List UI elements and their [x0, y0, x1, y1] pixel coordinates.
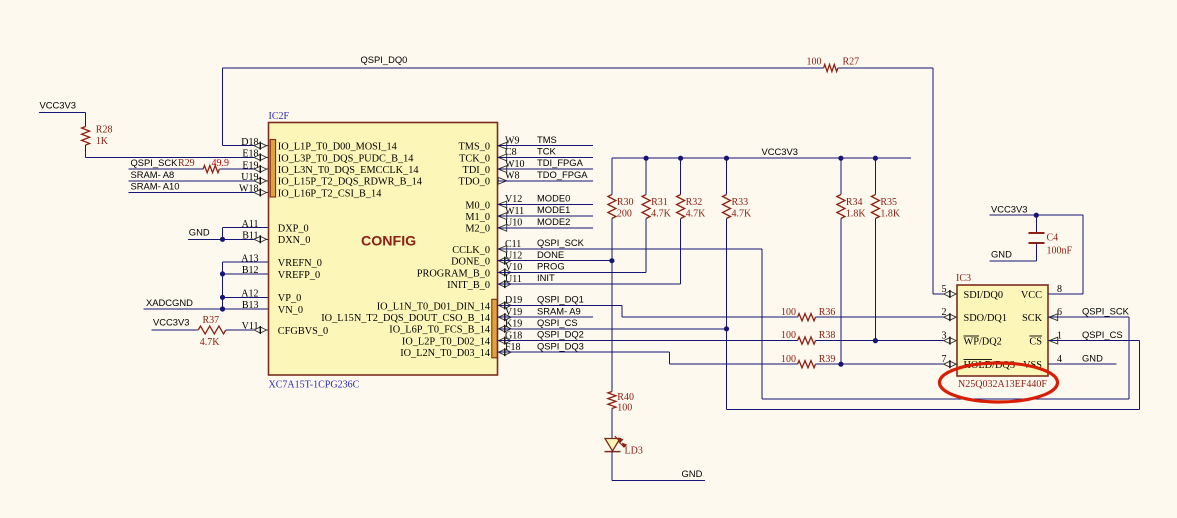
- svg-text:IO_L3N_T0_DQS_EMCCLK_14: IO_L3N_T0_DQS_EMCCLK_14: [278, 165, 419, 176]
- pin name CS right: [1029, 336, 1042, 348]
- svg-text:VREFP_0: VREFP_0: [278, 270, 320, 281]
- svg-text:4.7K: 4.7K: [732, 209, 753, 220]
- svg-text:QSPI_DQ0: QSPI_DQ0: [361, 54, 408, 65]
- wire QSPI_DQ0 horizontal: [223, 67, 824, 69]
- svg-text:N25Q032A13EF440F: N25Q032A13EF440F: [958, 379, 1047, 390]
- svg-text:W11: W11: [505, 206, 524, 217]
- pin name HOLD/DQ3: [964, 360, 1015, 372]
- wire DONE row: [498, 260, 612, 262]
- pin arrow G18: [499, 338, 511, 344]
- wire to pin A11 DXP: [223, 227, 269, 229]
- pin arrow U12: [499, 258, 511, 264]
- wire QSPI_SCK stub left: [129, 168, 204, 170]
- pin name SDO/DQ1: [964, 313, 1007, 324]
- svg-text:R27: R27: [843, 57, 860, 68]
- pin arrow E18: [254, 154, 266, 160]
- svg-text:CCLK_0: CCLK_0: [452, 245, 490, 256]
- resistor R33: [723, 195, 753, 220]
- svg-text:100: 100: [807, 57, 822, 68]
- junction rail/R35: [873, 156, 878, 161]
- wire TCK stub: [498, 156, 594, 158]
- svg-text:XADCGND: XADCGND: [146, 297, 193, 308]
- wire QSPI_DQ1 run to R36: [622, 316, 798, 318]
- svg-text:B13: B13: [242, 300, 259, 311]
- svg-text:IO_L1P_T0_D00_MOSI_14: IO_L1P_T0_D00_MOSI_14: [278, 142, 397, 153]
- wire R33 down to CS bottom wire: [726, 329, 728, 410]
- pin name WP/DQ2: [964, 336, 1002, 348]
- wire C4 bottom leg: [1035, 243, 1037, 261]
- wire QSPI_SCK up to flash pin6: [1128, 317, 1130, 399]
- svg-text:CONFIG: CONFIG: [361, 234, 416, 250]
- svg-text:IO_L15N_T2_DQS_DOUT_CSO_B_14: IO_L15N_T2_DQS_DOUT_CSO_B_14: [321, 313, 490, 324]
- junction VREFP junction: [220, 271, 225, 276]
- svg-text:100: 100: [781, 307, 796, 318]
- pin arrow E19: [254, 166, 266, 172]
- junction R34/DQ3 junction: [838, 362, 843, 367]
- pin arrow U19: [254, 178, 266, 184]
- resistor R39: [781, 354, 835, 368]
- svg-text:SDO/DQ1: SDO/DQ1: [964, 313, 1007, 324]
- wire to pin B12 VREFP: [223, 273, 269, 275]
- svg-text:W8: W8: [505, 171, 519, 182]
- svg-text:4.7K: 4.7K: [200, 337, 221, 348]
- svg-text:VREFN_0: VREFN_0: [278, 258, 322, 269]
- svg-text:V12: V12: [505, 194, 522, 205]
- wire QSPI_DQ1 row: [498, 304, 622, 306]
- svg-text:TCK: TCK: [537, 146, 556, 157]
- wire R39 to flash pin7: [816, 363, 958, 365]
- svg-text:DXP_0: DXP_0: [278, 224, 309, 235]
- junction VN junction: [220, 306, 225, 311]
- svg-text:TDO_0: TDO_0: [459, 177, 490, 188]
- svg-text:IO_L2P_T0_D02_14: IO_L2P_T0_D02_14: [402, 337, 490, 348]
- svg-text:SRAM- A8: SRAM- A8: [131, 169, 175, 180]
- svg-text:W10: W10: [505, 159, 524, 170]
- IC U2F FPGA box IC2F: [269, 111, 498, 391]
- junction rail/R34: [838, 156, 843, 161]
- junction rail/R31: [644, 156, 649, 161]
- svg-text:100nF: 100nF: [1047, 246, 1073, 257]
- wire to pin B13 VN: [223, 308, 269, 310]
- wire QSPI_DQ0 drop to flash pin5: [932, 68, 934, 294]
- svg-text:QSPI_CS: QSPI_CS: [537, 317, 578, 328]
- svg-text:1.8K: 1.8K: [846, 209, 867, 220]
- svg-text:VCC3V3: VCC3V3: [153, 317, 189, 328]
- svg-text:DONE: DONE: [537, 249, 564, 260]
- pin arrow U10: [498, 224, 507, 231]
- resistor R29: [203, 158, 229, 173]
- svg-text:R38: R38: [819, 330, 836, 341]
- svg-text:R40: R40: [617, 392, 634, 403]
- pin group bar right: [492, 299, 497, 358]
- wire VCC3V3 to R37: [152, 329, 199, 331]
- wire QSPI_DQ0 after R27: [838, 67, 933, 69]
- wire R35 down to DQ2 row: [874, 219, 876, 341]
- wire to pin A13 VREFN: [223, 261, 269, 263]
- wire VCC3V3 to R28: [85, 113, 87, 127]
- junction rail/R32: [678, 156, 683, 161]
- wire R29 to pin E19: [219, 168, 268, 170]
- svg-text:SDI/DQ0: SDI/DQ0: [964, 290, 1003, 301]
- pin arrow V10: [499, 269, 511, 275]
- resistor R40: [608, 392, 634, 414]
- svg-text:C4: C4: [1047, 233, 1059, 244]
- svg-text:M2_0: M2_0: [465, 224, 490, 235]
- pin arrow D18: [254, 143, 266, 149]
- pin arrow V19: [499, 314, 511, 320]
- wire R36 to flash pin2: [816, 316, 958, 318]
- resistor R30: [608, 195, 634, 220]
- wire QSPI_DQ0 into pin D18: [223, 145, 269, 147]
- wire GND to DXN: [188, 238, 222, 240]
- wire R38 to flash pin3: [816, 340, 958, 342]
- svg-text:100: 100: [781, 354, 796, 365]
- wire PROG row: [498, 271, 647, 273]
- svg-text:WP/DQ2: WP/DQ2: [964, 337, 1002, 348]
- wire QSPI_DQ0 drop to D18: [222, 68, 224, 146]
- resistor R38: [781, 330, 835, 344]
- svg-text:M0_0: M0_0: [465, 200, 490, 211]
- svg-text:VCC3V3: VCC3V3: [762, 146, 798, 157]
- junction GND/DXN: [220, 237, 225, 242]
- pin arrow flash 7: [944, 361, 956, 367]
- wire flash pin6 wire: [1048, 316, 1129, 318]
- svg-text:A11: A11: [242, 219, 259, 230]
- svg-text:VCC3V3: VCC3V3: [991, 204, 1027, 215]
- wire R37 to pin V11: [226, 329, 269, 331]
- wire VCC3V3 to flash VCC: [990, 214, 1084, 216]
- svg-text:QSPI_SCK: QSPI_SCK: [131, 157, 179, 168]
- wire QSPI_SCK bottom: [762, 398, 1129, 400]
- wire LED to GND wire: [611, 452, 613, 481]
- svg-text:GND: GND: [189, 227, 210, 238]
- wire QSPI_DQ0 into flash pin 5: [933, 293, 957, 295]
- svg-text:PROGRAM_B_0: PROGRAM_B_0: [417, 268, 490, 279]
- pin arrow W11: [498, 213, 507, 220]
- pin name SCK right: [1022, 313, 1043, 324]
- svg-text:8: 8: [1057, 284, 1062, 295]
- wire SRAM-A10 stub: [129, 192, 269, 194]
- svg-text:100: 100: [781, 330, 796, 341]
- wire TDO_FPGA stub: [498, 180, 594, 182]
- pin arrow C11: [498, 246, 507, 253]
- pin arrow W8: [498, 177, 507, 184]
- IC U3 flash box IC3: [956, 273, 1048, 376]
- svg-text:DXN_0: DXN_0: [278, 235, 311, 246]
- pin arrow D19: [499, 302, 511, 308]
- svg-text:4: 4: [1057, 354, 1062, 365]
- svg-text:R37: R37: [203, 315, 220, 326]
- svg-text:1K: 1K: [96, 136, 109, 147]
- svg-text:M1_0: M1_0: [465, 212, 490, 223]
- wire MODE1 stub: [498, 215, 594, 217]
- wire QSPI_CS bottom: [727, 409, 1140, 411]
- junction C4 junction: [1034, 213, 1039, 218]
- svg-text:MODE1: MODE1: [537, 204, 570, 215]
- pin arrow U11: [499, 281, 511, 287]
- junction DONE junction: [609, 258, 614, 263]
- wire TDI_FPGA stub: [498, 168, 594, 170]
- svg-text:4.7K: 4.7K: [686, 209, 707, 220]
- LED LD3: [605, 436, 643, 456]
- svg-text:SRAM- A9: SRAM- A9: [537, 305, 581, 316]
- pin arrow W18: [254, 190, 266, 196]
- svg-text:C11: C11: [505, 239, 521, 250]
- svg-text:49.9: 49.9: [212, 158, 230, 169]
- junction VP junction: [220, 295, 225, 300]
- junction CS/R33 junction: [724, 326, 729, 331]
- wire XADCGND to VN: [144, 308, 223, 310]
- svg-text:QSPI_CS: QSPI_CS: [1082, 329, 1123, 340]
- svg-text:R29: R29: [178, 158, 195, 169]
- wire R28 to pin E18: [86, 156, 269, 158]
- svg-text:VCC: VCC: [1021, 290, 1042, 301]
- wire TMS stub: [498, 145, 594, 147]
- resistor R32: [677, 195, 707, 220]
- pin arrow W10: [498, 166, 507, 173]
- pin name SDI/DQ0: [964, 290, 1003, 301]
- resistor R36: [781, 307, 835, 321]
- svg-text:VCC3V3: VCC3V3: [40, 100, 76, 111]
- svg-text:U10: U10: [505, 218, 522, 229]
- wire R32 top leg: [680, 158, 682, 194]
- svg-text:R31: R31: [651, 197, 668, 208]
- svg-text:A13: A13: [241, 253, 258, 264]
- svg-text:QSPI_SCK: QSPI_SCK: [537, 237, 585, 248]
- svg-text:DONE_0: DONE_0: [451, 257, 490, 268]
- svg-text:IO_L15P_T2_DQS_RDWR_B_14: IO_L15P_T2_DQS_RDWR_B_14: [278, 177, 422, 188]
- pin arrow flash 3: [944, 338, 956, 344]
- wire R28 to E18 row: [85, 145, 87, 157]
- wire R33 top leg: [726, 158, 728, 194]
- svg-text:PROG: PROG: [537, 261, 565, 272]
- svg-text:IO_L6P_T0_FCS_B_14: IO_L6P_T0_FCS_B_14: [389, 325, 490, 336]
- svg-text:GND: GND: [1082, 353, 1103, 364]
- svg-text:4.7K: 4.7K: [651, 209, 672, 220]
- wire R35 top leg: [874, 158, 876, 194]
- wire R30 to DONE: [611, 219, 613, 261]
- pin group bar left: [270, 140, 275, 198]
- wire SRAM-A8 stub: [129, 180, 269, 182]
- svg-text:R33: R33: [732, 197, 749, 208]
- svg-text:B12: B12: [242, 265, 259, 276]
- wire to C4 top: [1035, 215, 1037, 233]
- pin name VCC right: [1021, 290, 1042, 301]
- svg-text:TCK_0: TCK_0: [459, 153, 490, 164]
- svg-text:VN_0: VN_0: [278, 305, 303, 316]
- pin arrow V11: [254, 327, 266, 333]
- highlight ellipse: [940, 363, 1058, 402]
- svg-text:TDI_FPGA: TDI_FPGA: [537, 157, 584, 168]
- svg-text:QSPI_DQ2: QSPI_DQ2: [537, 329, 584, 340]
- pin arrow flash 5: [944, 291, 956, 297]
- pin arrow V12: [498, 201, 507, 208]
- resistor R28: [82, 125, 113, 147]
- wire flash pin8 to VCC: [1048, 293, 1083, 295]
- svg-text:R36: R36: [819, 307, 836, 318]
- wire DONE down to R40: [611, 261, 613, 392]
- svg-text:R28: R28: [96, 125, 113, 136]
- svg-text:XC7A15T-1CPG236C: XC7A15T-1CPG236C: [269, 380, 360, 391]
- svg-text:IO_L2N_T0_D03_14: IO_L2N_T0_D03_14: [400, 348, 490, 359]
- svg-text:R30: R30: [617, 197, 634, 208]
- wire R34 top leg: [840, 158, 842, 194]
- pin name VSS right: [1023, 360, 1042, 371]
- wire QSPI_DQ3 jog: [669, 352, 671, 364]
- wire QSPI_SCK vertical: [761, 249, 763, 399]
- pin arrow flash 6: [1049, 314, 1058, 321]
- resistor R31: [642, 195, 672, 220]
- svg-text:CS: CS: [1029, 337, 1042, 348]
- wire VCC down to flash pin8: [1082, 215, 1084, 294]
- wire MODE2 stub: [498, 227, 594, 229]
- svg-text:GND: GND: [991, 248, 1012, 259]
- svg-text:INIT: INIT: [537, 272, 555, 283]
- svg-text:W9: W9: [505, 136, 519, 147]
- resistor R37: [198, 315, 226, 348]
- wire to pin B11 DXN: [223, 238, 269, 240]
- wire QSPI_DQ3 run to R39: [670, 363, 798, 365]
- wire MODE0 stub: [498, 203, 594, 205]
- pin arrow B11: [254, 236, 266, 242]
- svg-text:R35: R35: [880, 197, 897, 208]
- pin arrow flash 1: [1049, 337, 1058, 344]
- wire INIT row: [498, 283, 681, 285]
- svg-text:A12: A12: [241, 289, 258, 300]
- svg-text:LD3: LD3: [625, 446, 643, 457]
- capacitor C4: [1028, 233, 1072, 257]
- wire QSPI_CS row: [498, 328, 727, 330]
- resistor R34: [837, 195, 867, 220]
- pin arrow W9: [498, 142, 507, 149]
- wire VCC3V3 rail: [612, 157, 911, 159]
- svg-text:SCK: SCK: [1022, 313, 1043, 324]
- svg-text:TMS_0: TMS_0: [459, 142, 490, 153]
- svg-text:VP_0: VP_0: [278, 293, 301, 304]
- svg-text:IO_L16P_T2_CSI_B_14: IO_L16P_T2_CSI_B_14: [278, 188, 382, 199]
- node QSPI_SCK left label: [131, 157, 195, 169]
- wire R34 down to DQ3 row: [840, 219, 842, 365]
- junction R35/DQ2 junction: [873, 338, 878, 343]
- wire flash pin1 wire: [1048, 340, 1139, 342]
- wire R31 top leg: [645, 158, 647, 194]
- svg-text:QSPI_DQ1: QSPI_DQ1: [537, 294, 584, 305]
- svg-text:IO_L1N_T0_D01_DIN_14: IO_L1N_T0_D01_DIN_14: [377, 301, 490, 312]
- ground GND at C4: [990, 248, 1037, 261]
- svg-text:QSPI_SCK: QSPI_SCK: [1082, 306, 1130, 317]
- resistor R27: [807, 57, 860, 72]
- wire QSPI_DQ2 run: [498, 340, 798, 342]
- ground GND at flash pin4: [1048, 353, 1117, 365]
- power symbol VCC3V3 top-left: [39, 100, 86, 113]
- wire R30 top leg: [611, 158, 613, 194]
- ground GND bottom: [612, 468, 705, 481]
- svg-text:R32: R32: [686, 197, 703, 208]
- svg-text:SRAM- A10: SRAM- A10: [131, 181, 180, 192]
- wire to pin A12 VP: [223, 296, 269, 298]
- svg-text:QSPI_DQ3: QSPI_DQ3: [537, 340, 584, 351]
- wire QSPI_SCK row: [498, 248, 763, 250]
- svg-text:TMS: TMS: [537, 134, 557, 145]
- svg-text:INIT_B_0: INIT_B_0: [447, 280, 490, 291]
- svg-text:CFGBVS_0: CFGBVS_0: [278, 326, 328, 337]
- svg-text:200: 200: [617, 209, 632, 220]
- svg-text:1.8K: 1.8K: [880, 209, 901, 220]
- wire SRAM-A9 stub: [498, 316, 594, 318]
- wire QSPI_CS up to flash pin1: [1138, 341, 1140, 410]
- svg-text:100: 100: [617, 403, 632, 414]
- wire R40 to LED: [611, 409, 613, 439]
- svg-text:TDO_FPGA: TDO_FPGA: [537, 169, 588, 180]
- svg-text:IC3: IC3: [956, 273, 971, 284]
- pin arrow K19: [499, 326, 511, 332]
- svg-text:MODE2: MODE2: [537, 216, 570, 227]
- svg-text:IO_L3P_T0_DQS_PUDC_B_14: IO_L3P_T0_DQS_PUDC_B_14: [278, 153, 414, 164]
- svg-text:GND: GND: [682, 468, 703, 479]
- svg-text:R34: R34: [846, 197, 863, 208]
- wire INIT up to R32: [680, 219, 682, 285]
- svg-text:R39: R39: [819, 354, 836, 365]
- wire PROG up to R31: [645, 219, 647, 273]
- resistor R35: [871, 195, 901, 220]
- wire DXP-DXN tie: [222, 228, 224, 240]
- svg-text:IC2F: IC2F: [269, 111, 290, 122]
- wire QSPI_DQ1 jog: [621, 305, 623, 317]
- wire QSPI_DQ3 row: [498, 351, 670, 353]
- junction rail/R33: [724, 156, 729, 161]
- pin arrow flash 2: [944, 314, 956, 320]
- pin arrow C8: [498, 154, 507, 161]
- wire R33 down to CS: [726, 219, 728, 329]
- pin arrow F18: [499, 349, 511, 355]
- wire XADC tie vertical: [222, 262, 224, 309]
- svg-text:TDI_0: TDI_0: [463, 165, 490, 176]
- svg-text:MODE0: MODE0: [537, 193, 570, 204]
